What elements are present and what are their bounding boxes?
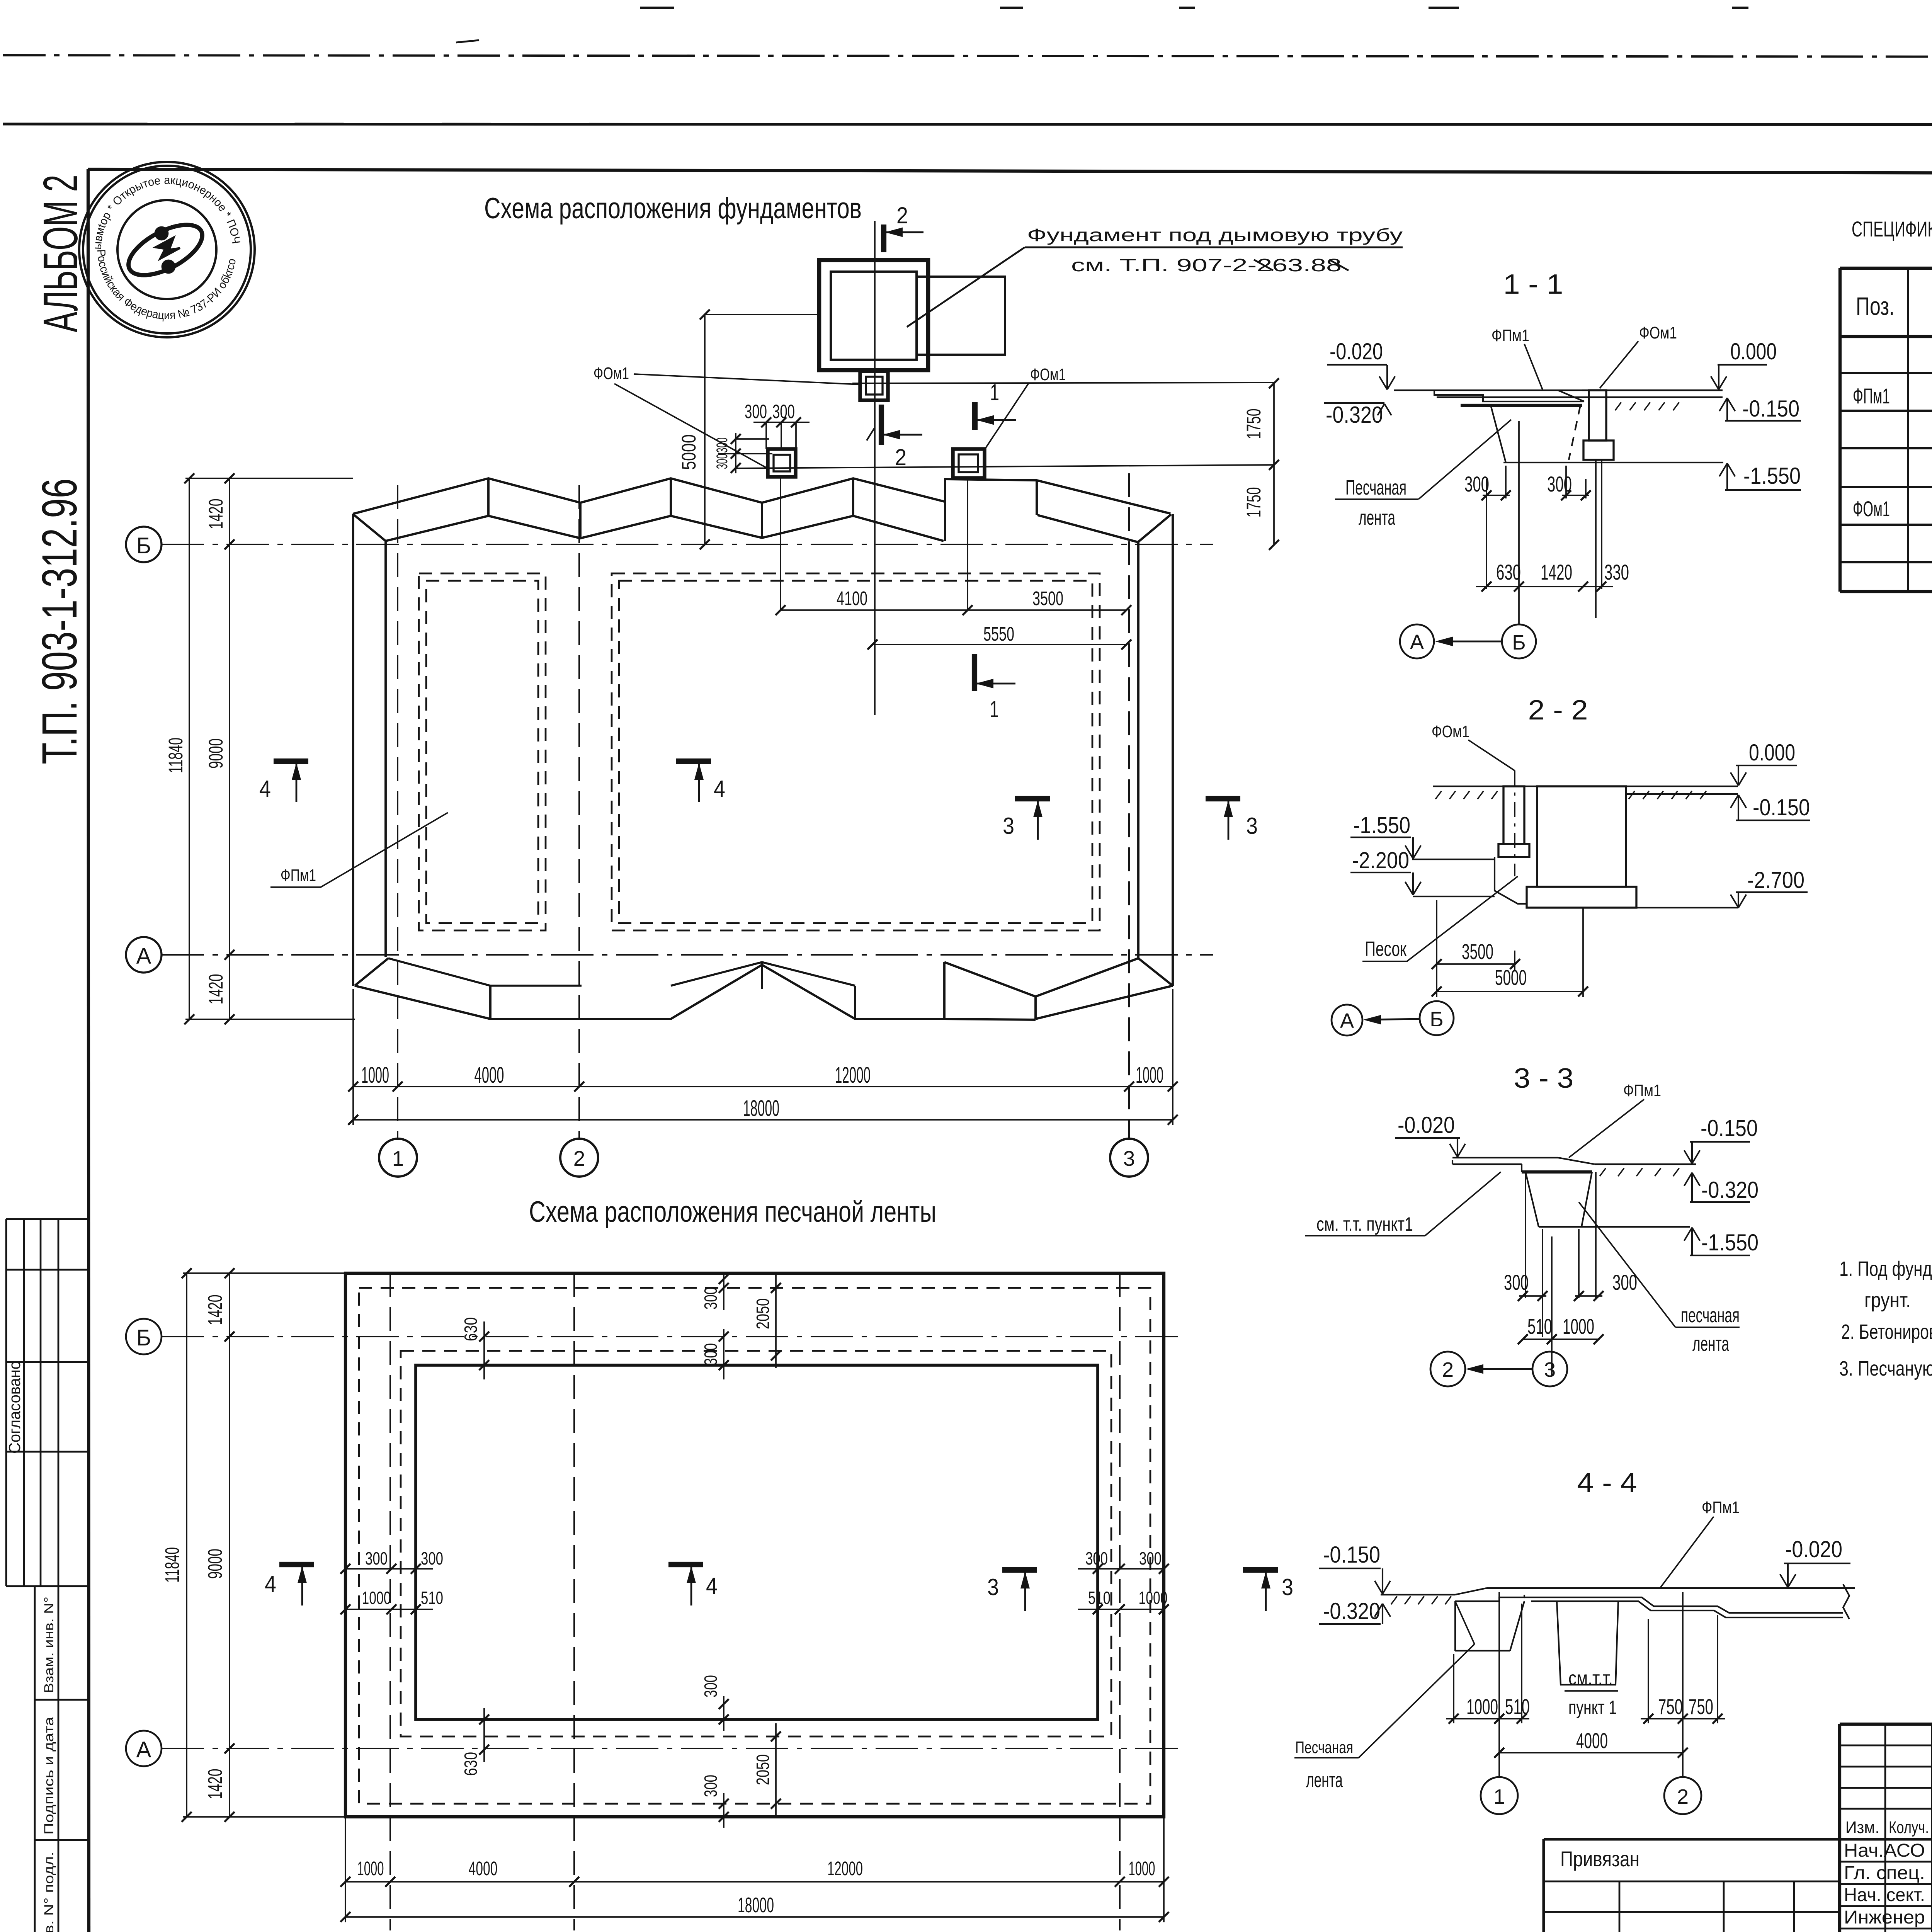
svg-text:грунт.: грунт. xyxy=(1864,1289,1911,1312)
svg-text:-0.020: -0.020 xyxy=(1785,1536,1842,1562)
svg-text:ФПм1: ФПм1 xyxy=(1623,1081,1661,1100)
svg-text:1000: 1000 xyxy=(1139,1588,1168,1608)
svg-text:ФОм1: ФОм1 xyxy=(1432,722,1469,741)
svg-text:Привязан: Привязан xyxy=(1560,1847,1639,1871)
svg-text:510: 510 xyxy=(1088,1588,1111,1608)
svg-text:А: А xyxy=(136,1737,151,1762)
svg-text:630: 630 xyxy=(461,1752,481,1776)
svg-text:2: 2 xyxy=(573,1146,585,1170)
svg-text:Поз.: Поз. xyxy=(1856,292,1895,320)
svg-text:-0.020: -0.020 xyxy=(1398,1112,1455,1138)
svg-text:4 - 4: 4 - 4 xyxy=(1577,1468,1637,1498)
svg-text:2050: 2050 xyxy=(753,1754,773,1785)
svg-text:9000: 9000 xyxy=(205,738,227,769)
svg-text:3: 3 xyxy=(1246,813,1258,839)
svg-text:см. т.т. пункт1: см. т.т. пункт1 xyxy=(1316,1213,1413,1235)
svg-text:12000: 12000 xyxy=(827,1857,863,1879)
svg-text:Б: Б xyxy=(136,533,151,558)
svg-text:1420: 1420 xyxy=(204,1769,226,1799)
svg-text:300: 300 xyxy=(365,1548,388,1568)
svg-text:1000: 1000 xyxy=(1466,1694,1498,1719)
svg-text:ФОм1: ФОм1 xyxy=(1853,497,1890,521)
svg-text:ФОм1: ФОм1 xyxy=(1030,365,1066,384)
svg-text:-2.200: -2.200 xyxy=(1352,847,1409,873)
svg-text:-0.150: -0.150 xyxy=(1742,396,1799,422)
svg-text:лента: лента xyxy=(1359,506,1396,529)
svg-text:1420: 1420 xyxy=(205,499,227,529)
svg-text:4: 4 xyxy=(265,1571,276,1597)
svg-text:ФПм1: ФПм1 xyxy=(1702,1498,1740,1517)
svg-text:см.т.т.: см.т.т. xyxy=(1568,1667,1613,1689)
svg-text:3: 3 xyxy=(987,1574,999,1600)
svg-text:ФПм1: ФПм1 xyxy=(281,866,316,885)
svg-text:4000: 4000 xyxy=(1576,1728,1608,1753)
svg-text:2050: 2050 xyxy=(753,1298,773,1329)
svg-text:1 - 1: 1 - 1 xyxy=(1503,269,1563,300)
svg-text:Схема расположения фундаментов: Схема расположения фундаментов xyxy=(484,192,862,225)
svg-text:3: 3 xyxy=(1123,1146,1135,1170)
svg-text:9000: 9000 xyxy=(204,1549,226,1579)
svg-text:ФОм1: ФОм1 xyxy=(1639,323,1677,342)
svg-text:750: 750 xyxy=(1689,1694,1713,1719)
svg-text:18000: 18000 xyxy=(743,1096,779,1121)
svg-text:630: 630 xyxy=(461,1317,481,1341)
svg-text:см. Т.П. 907-2-263.88: см. Т.П. 907-2-263.88 xyxy=(1071,255,1342,275)
svg-text:1: 1 xyxy=(1493,1785,1505,1808)
svg-text:-0.150: -0.150 xyxy=(1753,794,1810,820)
svg-text:2: 2 xyxy=(895,444,906,470)
svg-text:1750: 1750 xyxy=(1243,487,1265,518)
svg-text:300: 300 xyxy=(1464,472,1489,496)
svg-text:Схема расположения песчаной ле: Схема расположения песчаной ленты xyxy=(529,1196,936,1228)
svg-text:Проверил: Проверил xyxy=(1844,1929,1925,1932)
svg-text:300: 300 xyxy=(1504,1270,1529,1294)
svg-text:510: 510 xyxy=(1527,1314,1552,1338)
svg-text:12000: 12000 xyxy=(835,1063,871,1088)
svg-text:А: А xyxy=(1410,631,1424,654)
svg-text:1000: 1000 xyxy=(1563,1314,1594,1338)
svg-text:-1.550: -1.550 xyxy=(1353,812,1410,838)
svg-text:Нач. сект.: Нач. сект. xyxy=(1844,1885,1925,1905)
svg-text:1000: 1000 xyxy=(357,1857,384,1879)
svg-text:-2.700: -2.700 xyxy=(1747,867,1804,893)
svg-text:330: 330 xyxy=(1604,560,1629,584)
svg-text:4100: 4100 xyxy=(837,587,867,609)
svg-text:Согласовано: Согласовано xyxy=(5,1361,24,1454)
svg-text:11840: 11840 xyxy=(161,1547,183,1583)
svg-text:3: 3 xyxy=(1003,813,1014,839)
svg-text:Б: Б xyxy=(1430,1008,1443,1031)
svg-text:СПЕЦИФИКАЦИЯ К СХЕМЕ РАСПОЛ: СПЕЦИФИКАЦИЯ К СХЕМЕ РАСПОЛОЖЕНИЯ ФУНДАМ… xyxy=(1852,217,1932,241)
svg-text:2 - 2: 2 - 2 xyxy=(1528,695,1588,726)
svg-text:4: 4 xyxy=(706,1573,718,1599)
svg-text:Песок: Песок xyxy=(1365,937,1406,961)
svg-text:ФПм1: ФПм1 xyxy=(1492,326,1529,345)
svg-text:3: 3 xyxy=(1544,1358,1556,1381)
svg-text:300: 300 xyxy=(1139,1548,1162,1568)
svg-text:1000: 1000 xyxy=(1129,1857,1155,1879)
svg-text:1420: 1420 xyxy=(1541,560,1572,584)
svg-text:пункт 1: пункт 1 xyxy=(1568,1697,1617,1718)
svg-text:300: 300 xyxy=(701,1343,721,1366)
svg-text:Песчаная: Песчаная xyxy=(1345,476,1406,499)
svg-text:630: 630 xyxy=(1496,560,1521,584)
svg-text:3: 3 xyxy=(1282,1574,1293,1600)
svg-text:Б: Б xyxy=(1512,631,1526,654)
svg-text:Инв. N° подл.: Инв. N° подл. xyxy=(42,1852,56,1932)
svg-text:2: 2 xyxy=(896,202,908,228)
svg-text:-1.550: -1.550 xyxy=(1701,1230,1759,1255)
svg-text:1. Под фундаментной плитой вып: 1. Под фундаментной плитой выполнить под… xyxy=(1839,1257,1932,1281)
svg-text:лента: лента xyxy=(1306,1769,1343,1792)
svg-text:510: 510 xyxy=(421,1588,443,1608)
svg-text:18000: 18000 xyxy=(738,1893,774,1917)
svg-text:1420: 1420 xyxy=(205,974,227,1005)
svg-text:300: 300 xyxy=(421,1548,443,1568)
svg-text:2. Бетонирование фундаментной: 2. Бетонирование фундаментной плиты выпо… xyxy=(1841,1320,1932,1344)
svg-text:Взам. инв. N°: Взам. инв. N° xyxy=(42,1597,56,1693)
svg-text:300: 300 xyxy=(714,437,731,453)
svg-text:-0.320: -0.320 xyxy=(1326,402,1383,428)
svg-text:А: А xyxy=(136,944,151,969)
svg-text:Гл. спец.: Гл. спец. xyxy=(1844,1863,1925,1883)
svg-text:300: 300 xyxy=(701,1775,721,1797)
svg-text:1000: 1000 xyxy=(362,1588,391,1608)
svg-text:300: 300 xyxy=(1612,1270,1637,1294)
svg-text:3500: 3500 xyxy=(1462,939,1493,964)
svg-text:Инженер: Инженер xyxy=(1844,1907,1925,1928)
svg-text:-0.320: -0.320 xyxy=(1323,1598,1380,1624)
svg-text:1: 1 xyxy=(392,1146,404,1170)
svg-text:0.000: 0.000 xyxy=(1730,338,1777,364)
svg-text:300: 300 xyxy=(1085,1548,1108,1568)
svg-text:-0.020: -0.020 xyxy=(1330,338,1383,364)
svg-text:песчаная: песчаная xyxy=(1681,1304,1740,1327)
svg-text:Песчаная: Песчаная xyxy=(1295,1738,1353,1757)
svg-text:А: А xyxy=(1340,1009,1354,1032)
svg-text:Колуч.: Колуч. xyxy=(1889,1818,1929,1837)
svg-text:2: 2 xyxy=(1442,1358,1454,1381)
svg-text:0.000: 0.000 xyxy=(1749,740,1795,765)
svg-text:11840: 11840 xyxy=(165,738,187,773)
svg-text:300: 300 xyxy=(745,401,767,422)
svg-text:2: 2 xyxy=(1677,1785,1689,1808)
svg-text:1000: 1000 xyxy=(361,1063,389,1088)
svg-text:ФОм1: ФОм1 xyxy=(594,364,629,383)
svg-text:300: 300 xyxy=(701,1287,721,1310)
svg-text:1000: 1000 xyxy=(1136,1063,1163,1088)
svg-text:ФПм1: ФПм1 xyxy=(1853,384,1890,408)
svg-text:5000: 5000 xyxy=(1495,965,1527,990)
svg-text:Б: Б xyxy=(136,1325,151,1350)
svg-text:Фундамент под дымовую трубу: Фундамент под дымовую трубу xyxy=(1027,225,1403,245)
svg-text:Изм.: Изм. xyxy=(1845,1818,1879,1837)
svg-text:Подпись и дата: Подпись и дата xyxy=(42,1717,56,1835)
svg-text:300: 300 xyxy=(714,454,731,469)
svg-text:-0.320: -0.320 xyxy=(1701,1177,1759,1203)
svg-text:Нач.АСО: Нач.АСО xyxy=(1844,1840,1925,1861)
svg-text:-0.150: -0.150 xyxy=(1323,1542,1380,1568)
svg-text:1420: 1420 xyxy=(204,1295,226,1325)
svg-text:Т.П. 903-1-312.96: Т.П. 903-1-312.96 xyxy=(32,478,87,764)
svg-text:3500: 3500 xyxy=(1032,587,1063,609)
svg-text:5550: 5550 xyxy=(983,623,1014,645)
svg-text:-1.550: -1.550 xyxy=(1743,463,1801,489)
svg-text:4: 4 xyxy=(259,776,271,802)
svg-text:лента: лента xyxy=(1692,1332,1730,1355)
svg-text:750: 750 xyxy=(1658,1694,1683,1719)
svg-text:3. Песчаную ленту выполнять сл: 3. Песчаную ленту выполнять слоями 150-2… xyxy=(1839,1357,1932,1380)
svg-text:3 - 3: 3 - 3 xyxy=(1514,1063,1574,1094)
svg-text:1: 1 xyxy=(990,696,999,722)
svg-text:1750: 1750 xyxy=(1243,409,1265,439)
svg-text:5000: 5000 xyxy=(678,434,700,470)
svg-text:4: 4 xyxy=(714,776,725,802)
svg-text:-0.150: -0.150 xyxy=(1701,1115,1758,1141)
svg-text:4000: 4000 xyxy=(474,1063,504,1088)
svg-text:4000: 4000 xyxy=(469,1857,498,1879)
svg-text:300: 300 xyxy=(701,1675,721,1697)
